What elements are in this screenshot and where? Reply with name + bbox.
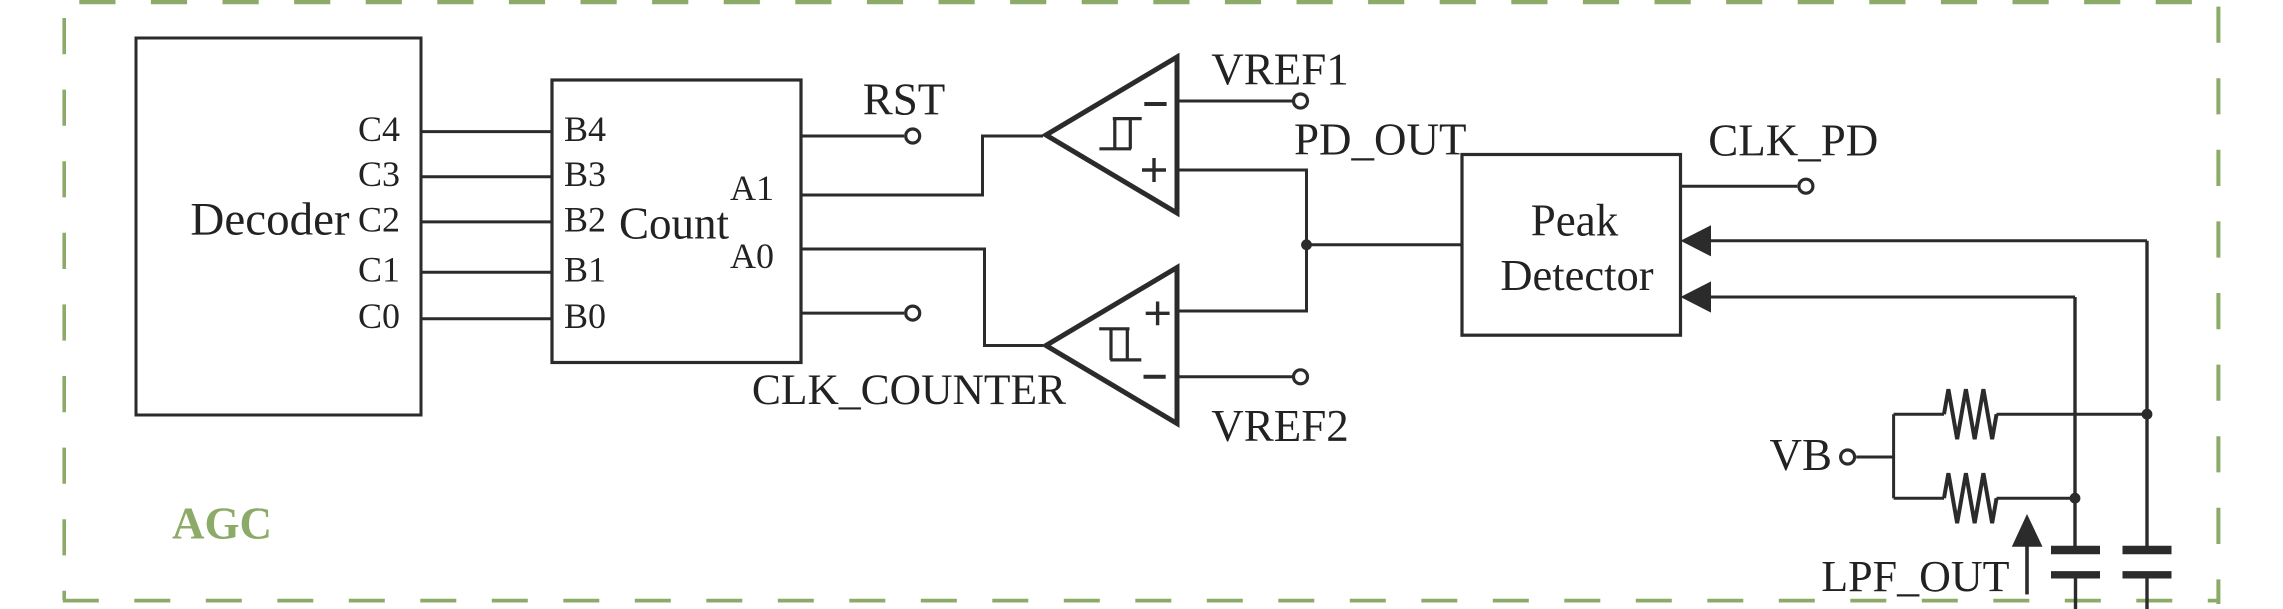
svg-text:A1: A1 xyxy=(730,168,774,208)
svg-text:PD_OUT: PD_OUT xyxy=(1294,115,1467,165)
U4 plus sign xyxy=(1146,302,1170,326)
wire A1 to comparator U3 xyxy=(801,136,1043,195)
arrow LPF_OUT (up) xyxy=(2025,545,2029,594)
svg-text:A0: A0 xyxy=(730,236,774,276)
wire RST xyxy=(801,135,904,138)
wire C4-B4 xyxy=(421,130,552,133)
peak detector U5 box xyxy=(1462,155,1681,336)
wire CLK_COUNTER xyxy=(801,312,904,315)
terminal VB xyxy=(1841,450,1855,464)
wire arrow1 to cap C2 branch xyxy=(1710,239,2147,242)
counter U2 box xyxy=(552,80,801,363)
wire U4 minus input to VREF2 xyxy=(1177,375,1292,378)
wire C1-B1 xyxy=(421,271,552,274)
svg-text:Detector: Detector xyxy=(1500,250,1653,300)
node A junction xyxy=(2070,493,2081,504)
wire split bracket xyxy=(1894,414,1944,498)
svg-text:CLK_COUNTER: CLK_COUNTER xyxy=(752,366,1066,414)
svg-text:C1: C1 xyxy=(358,250,400,290)
U3 hysteresis symbol xyxy=(1099,119,1141,149)
svg-text:VREF1: VREF1 xyxy=(1211,45,1349,95)
svg-text:RST: RST xyxy=(863,75,946,125)
comparator U3 (upper, Schmitt) xyxy=(1046,57,1177,213)
svg-text:B1: B1 xyxy=(564,250,606,290)
svg-text:B4: B4 xyxy=(564,109,606,149)
svg-text:Count: Count xyxy=(619,198,730,248)
svg-text:C4: C4 xyxy=(358,109,400,149)
svg-text:B2: B2 xyxy=(564,199,606,239)
svg-text:VREF2: VREF2 xyxy=(1211,401,1349,451)
wire C2-B2 xyxy=(421,220,552,223)
wire arrow2 to cap C1 branch xyxy=(1710,296,2075,299)
resistor R1 (upper) xyxy=(1944,389,1997,439)
node B junction xyxy=(2142,409,2153,420)
U4 minus sign xyxy=(1144,375,1166,379)
AGC dashed boundary left xyxy=(62,2,66,600)
terminal VREF2 xyxy=(1294,370,1308,384)
svg-text:CLK_PD: CLK_PD xyxy=(1708,115,1878,165)
wire node to peak detector xyxy=(1307,243,1463,246)
wire U3 minus input to VREF1 xyxy=(1177,100,1292,103)
svg-text:AGC: AGC xyxy=(172,498,272,548)
arrow input 1 into peak detector xyxy=(1681,225,1712,256)
terminal VREF1 xyxy=(1294,94,1308,108)
wire C3-B3 xyxy=(421,175,552,178)
wire vertical branch A (to cap C1) xyxy=(2073,297,2076,547)
wire R2 to node A xyxy=(1997,497,2076,500)
arrow input 2 into peak detector xyxy=(1681,281,1712,312)
terminal CLK_PD xyxy=(1799,179,1813,193)
svg-text:B0: B0 xyxy=(564,296,606,336)
wire vertical branch B (to cap C2) xyxy=(2145,241,2148,547)
svg-text:VB: VB xyxy=(1769,430,1832,480)
wire VB to split xyxy=(1856,456,1893,459)
AGC dashed boundary top xyxy=(64,0,2219,4)
wire A0 to comparator U4 xyxy=(801,249,1043,346)
wire C0-B0 xyxy=(421,317,552,320)
svg-text:Decoder: Decoder xyxy=(190,194,350,246)
wire CLK_PD xyxy=(1681,185,1798,188)
terminal RST xyxy=(906,129,920,143)
svg-text:LPF_OUT: LPF_OUT xyxy=(1821,552,2009,601)
svg-text:C2: C2 xyxy=(358,199,400,239)
comparator U4 (lower, Schmitt) xyxy=(1046,268,1177,424)
svg-text:Peak: Peak xyxy=(1531,196,1619,246)
U4 hysteresis symbol xyxy=(1099,329,1141,360)
AGC dashed boundary right xyxy=(2216,7,2220,604)
svg-text:C3: C3 xyxy=(358,154,400,194)
decoder U1 box xyxy=(136,38,421,415)
wire U3 plus input from node xyxy=(1177,170,1307,245)
U3 minus sign xyxy=(1144,102,1166,106)
AGC dashed boundary bottom xyxy=(63,599,2220,603)
node PD_OUT junction xyxy=(1301,239,1312,250)
U3 plus sign xyxy=(1142,158,1166,182)
capacitor C1 xyxy=(2051,546,2100,554)
wire U4 plus input from node xyxy=(1177,246,1307,311)
capacitor C2 xyxy=(2123,546,2172,554)
svg-text:B3: B3 xyxy=(564,154,606,194)
terminal CLK_COUNTER xyxy=(906,306,920,320)
wire R1 to node B xyxy=(1997,413,2148,416)
svg-text:C0: C0 xyxy=(358,296,400,336)
resistor R2 (lower) xyxy=(1944,473,1997,523)
